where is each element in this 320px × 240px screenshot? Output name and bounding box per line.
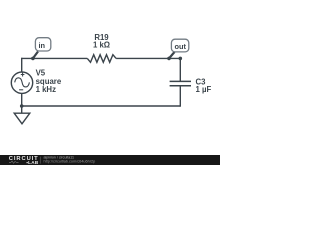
voltage source V5 circle	[11, 72, 32, 93]
svg-text:▪LAB: ▪LAB	[26, 160, 39, 165]
in flag stem	[33, 52, 38, 59]
capacitor C3 top plate	[170, 80, 191, 82]
resistor R19 zigzag body	[87, 55, 116, 63]
in flag box	[35, 38, 50, 51]
svg-text:1 kΩ: 1 kΩ	[93, 40, 110, 49]
node ground junction dot	[20, 104, 24, 108]
capacitor C3 bottom plate	[170, 85, 191, 87]
wire left vertical (corner down to source top)	[21, 58, 23, 72]
wire top-left segment (left corner to resistor)	[22, 57, 88, 59]
svg-text:1 kHz: 1 kHz	[36, 85, 56, 94]
wire right vertical upper (corner down to cap top plate)	[179, 58, 181, 82]
node in junction dot	[31, 57, 35, 61]
svg-text:in: in	[39, 41, 46, 50]
wire right vertical lower (cap bottom plate to bottom rail)	[179, 86, 181, 107]
node out junction dot	[167, 57, 171, 61]
footer bar	[0, 155, 220, 165]
svg-text:http://circuitlab.com/c64u6hr2: http://circuitlab.com/c64u6hr2p	[44, 160, 96, 164]
footer CircuitLab logo waveform glyph	[9, 161, 19, 164]
wire source bottom to bottom rail	[21, 93, 23, 106]
wire top-right segment (resistor to right corner)	[116, 57, 180, 59]
wire bottom rail	[22, 105, 181, 107]
out flag box	[171, 39, 188, 52]
node capacitor-top corner dot	[179, 57, 183, 61]
ground triangle	[14, 113, 30, 124]
voltage source sine wave	[15, 78, 30, 87]
out flag stem	[169, 52, 175, 58]
footer separator line	[39, 157, 41, 164]
ground stem	[21, 106, 23, 113]
svg-text:out: out	[174, 42, 186, 51]
svg-text:1 µF: 1 µF	[196, 85, 212, 94]
voltage source plus sign	[21, 73, 25, 77]
voltage source minus sign	[19, 89, 23, 91]
